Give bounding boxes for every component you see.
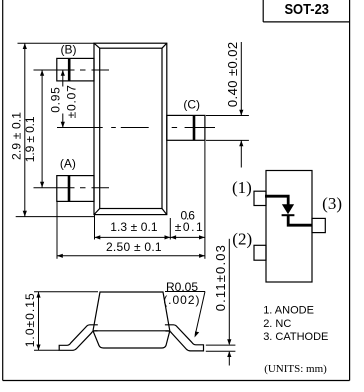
svg-text:(1): (1) [232, 178, 252, 197]
svg-text:±0.1: ±0.1 [175, 220, 203, 234]
svg-text:(B): (B) [61, 42, 77, 56]
svg-text:2. NC: 2. NC [263, 318, 291, 330]
svg-text:1.0±0.15: 1.0±0.15 [23, 293, 37, 347]
svg-text:(3): (3) [322, 194, 342, 213]
svg-text:(UNITS: mm): (UNITS: mm) [264, 363, 327, 375]
svg-text:(2): (2) [232, 229, 252, 248]
svg-text:3. CATHODE: 3. CATHODE [263, 331, 328, 343]
svg-text:0.11±0.03: 0.11±0.03 [213, 245, 228, 311]
svg-text:0.40 ±0.02: 0.40 ±0.02 [225, 42, 240, 107]
svg-text:(.002): (.002) [163, 293, 199, 307]
svg-text:1. ANODE: 1. ANODE [263, 305, 314, 317]
svg-text:2.9 ± 0.1: 2.9 ± 0.1 [9, 112, 23, 160]
svg-text:SOT-23: SOT-23 [284, 1, 329, 18]
svg-text:(C): (C) [183, 97, 200, 111]
svg-text:2.50 ± 0.1: 2.50 ± 0.1 [106, 240, 162, 254]
svg-text:(A): (A) [60, 156, 76, 170]
svg-text:0.95: 0.95 [49, 87, 63, 113]
svg-text:1.3 ± 0.1: 1.3 ± 0.1 [110, 220, 158, 234]
svg-text:±0.07: ±0.07 [65, 85, 79, 119]
svg-text:1.9 ± 0.1: 1.9 ± 0.1 [23, 116, 37, 162]
